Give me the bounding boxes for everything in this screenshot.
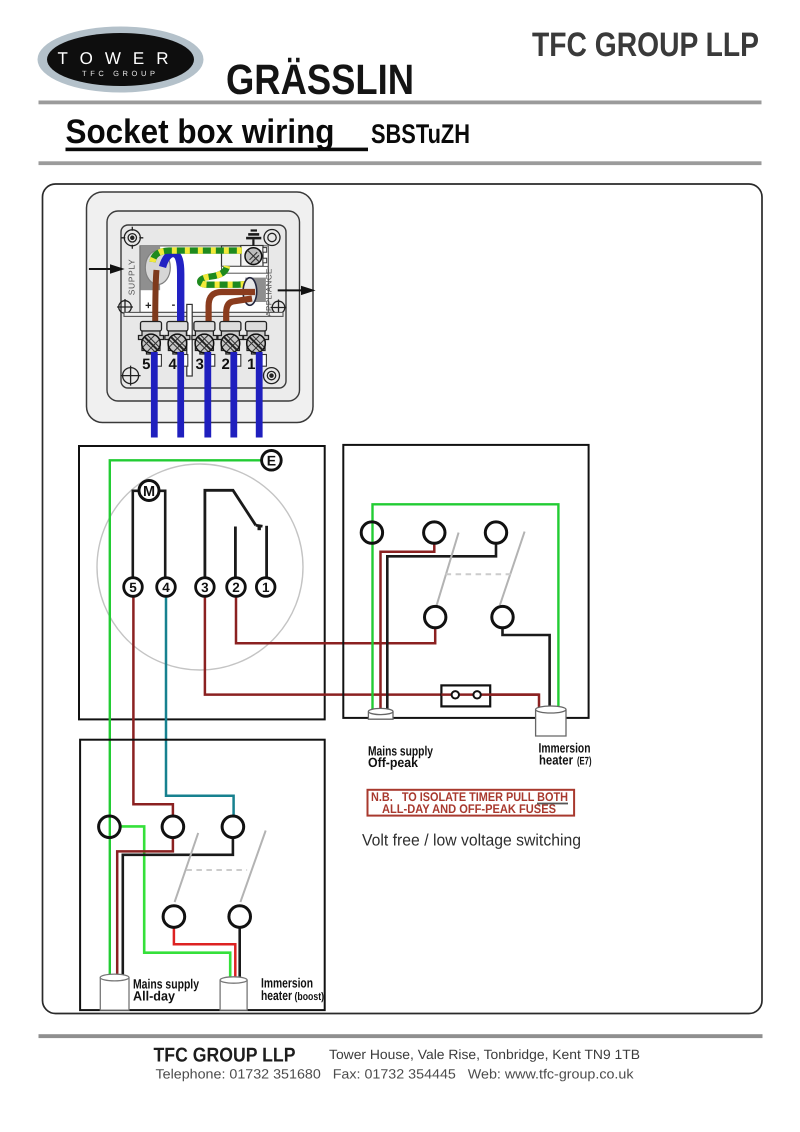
svg-text:1: 1 — [247, 356, 255, 373]
svg-text:1: 1 — [262, 580, 270, 595]
terminal panel — [140, 246, 268, 313]
svg-text:5: 5 — [129, 580, 137, 595]
svg-text:TFC GROUP: TFC GROUP — [82, 69, 159, 78]
svg-text:3: 3 — [196, 356, 204, 373]
svg-text:Telephone: 01732 351680 Fax:: Telephone: 01732 351680 Fax: 01732 35444… — [156, 1067, 634, 1082]
wire blue supply neutral — [163, 253, 181, 332]
wire bright green earth link all-day — [120, 826, 230, 979]
title rule — [39, 161, 762, 165]
wire switch common from terminal 3 — [205, 490, 256, 578]
svg-text:+: + — [145, 300, 151, 312]
svg-text:-: - — [172, 299, 176, 311]
terminal node 5 — [124, 578, 143, 597]
svg-text:4: 4 — [169, 356, 178, 373]
wire dark red neutral to mains off-peak — [381, 543, 435, 710]
timer dial circle — [97, 464, 303, 670]
screw mid-left — [117, 299, 133, 315]
socket box outer plate — [87, 192, 314, 423]
earth clamp — [222, 246, 245, 267]
switch arm right all-day — [240, 831, 265, 903]
supply arrow — [89, 264, 125, 273]
node top-left off-peak — [361, 522, 382, 543]
wire blue drop 3 — [204, 352, 211, 438]
svg-text:(boost): (boost) — [295, 991, 325, 1003]
node E — [262, 451, 282, 471]
wire blue drop 5 — [151, 352, 158, 438]
fuse block — [441, 685, 490, 706]
node top-right all-day — [222, 816, 244, 838]
svg-text:GRÄSSLIN: GRÄSSLIN — [226, 57, 414, 104]
svg-text:TFC GROUP LLP: TFC GROUP LLP — [154, 1044, 296, 1066]
terminal node 2 — [227, 578, 246, 597]
node top-right off-peak — [485, 522, 506, 543]
immersion heater E7 cylinder — [536, 706, 566, 736]
wire black live to mains all-day — [123, 838, 233, 976]
wire earth green/yellow upper — [153, 251, 243, 262]
wire black live to mains off-peak — [387, 543, 496, 710]
svg-text:Off-peak: Off-peak — [368, 755, 418, 770]
terminal 3 — [192, 322, 217, 374]
svg-text:2: 2 — [232, 580, 240, 595]
footer rule — [39, 1034, 763, 1038]
wire brown appliance B — [226, 299, 252, 333]
wire dark red terminal 5 to all-day box — [133, 596, 173, 816]
wire contact terminal 1 — [265, 526, 268, 578]
svg-text:M: M — [143, 484, 155, 500]
svg-text:4: 4 — [162, 580, 170, 595]
header rule — [39, 101, 762, 105]
node bottom-right off-peak — [492, 606, 513, 627]
switch arm left all-day — [175, 833, 199, 902]
timer box frame — [79, 446, 325, 719]
wire brown appliance A — [209, 292, 255, 332]
svg-text:E: E — [267, 453, 276, 469]
node bottom-right all-day — [229, 906, 251, 928]
svg-text:SUPPLY: SUPPLY — [127, 259, 137, 296]
wire blue drop 2 — [230, 352, 237, 438]
terminal 5 — [139, 322, 164, 374]
svg-text:SBSTuZH: SBSTuZH — [371, 119, 470, 149]
off-peak box frame — [343, 445, 588, 718]
wire blue drop 1 — [256, 352, 263, 438]
node top-left all-day — [99, 816, 121, 838]
switch contact hook — [256, 525, 263, 526]
wire green earth loop off-peak — [373, 504, 559, 714]
wire dark red terminal 2 to off-peak box — [236, 596, 435, 643]
title underline — [66, 148, 369, 152]
mains off-peak cylinder — [368, 708, 393, 719]
separator strip — [187, 304, 192, 376]
svg-text:heater: heater — [261, 988, 293, 1003]
wire motor to terminal 4 — [159, 491, 165, 578]
switch link dashed — [446, 573, 511, 575]
terminal node 3 — [196, 578, 215, 597]
svg-text:TOWER: TOWER — [58, 49, 184, 68]
svg-text:APPLIANCE: APPLIANCE — [265, 268, 274, 317]
screw bottom-left — [121, 366, 141, 386]
svg-text:heater: heater — [539, 752, 574, 767]
wire motor to terminal 5 — [133, 491, 139, 578]
screw top-right — [264, 230, 280, 246]
screw mid-right — [271, 300, 287, 316]
node bottom-mid off-peak — [425, 606, 446, 627]
appliance cable ellipse — [243, 278, 257, 306]
switch link dashed all-day — [186, 869, 247, 871]
svg-text:3: 3 — [201, 580, 209, 595]
white band under earth row — [222, 266, 269, 273]
svg-text:2: 2 — [222, 356, 230, 373]
svg-text:(E7): (E7) — [577, 755, 592, 767]
terminal node 1 — [256, 578, 275, 597]
svg-text:Tower House, Vale Rise, Tonbri: Tower House, Vale Rise, Tonbridge, Kent … — [329, 1047, 640, 1062]
svg-text:ALL-DAY AND OFF-PEAK FUSES: ALL-DAY AND OFF-PEAK FUSES — [382, 802, 556, 816]
terminal 1 — [244, 322, 269, 374]
wire brown supply live — [155, 270, 156, 332]
socket box inner plate — [121, 225, 286, 388]
appliance cable exit — [245, 278, 266, 302]
mains all-day cylinder — [100, 974, 129, 1010]
svg-text:Volt free / low voltage switch: Volt free / low voltage switching — [362, 832, 581, 850]
supply cable entry — [140, 246, 160, 290]
wire dark red neutral to mains all-day — [117, 838, 173, 976]
immersion heater boost cylinder — [220, 977, 247, 1010]
switch arm right off-peak — [500, 532, 525, 606]
appliance arrow — [278, 286, 316, 295]
switch arm left off-peak — [437, 533, 459, 606]
wire earth green/yellow loop — [200, 266, 249, 285]
earth terminal screw — [245, 248, 262, 265]
wire dark red terminal 3 to off-peak fuse — [205, 596, 539, 711]
terminal node 4 — [157, 578, 176, 597]
wire teal terminal 4 to all-day box — [166, 596, 234, 816]
fuse contact right — [473, 691, 480, 698]
svg-text:5: 5 — [142, 356, 150, 373]
node top-mid off-peak — [424, 522, 445, 543]
panel ledge — [124, 312, 283, 316]
screw bottom-right — [264, 368, 280, 384]
socket box mid plate — [107, 211, 300, 401]
wire contact terminal 2 — [234, 527, 237, 579]
warning box frame — [368, 790, 575, 816]
earth symbol — [246, 231, 261, 247]
warning BOTH underline — [537, 803, 568, 805]
wire blue drop 4 — [177, 352, 184, 438]
terminal 4 — [165, 322, 190, 374]
wire dark red through fuse — [441, 693, 539, 696]
fuse contact left — [452, 691, 459, 698]
svg-text:Socket box wiring: Socket box wiring — [66, 113, 335, 151]
svg-text:TFC GROUP LLP: TFC GROUP LLP — [532, 26, 759, 64]
screw top-left — [121, 227, 143, 249]
terminal 2 — [218, 322, 243, 374]
earth screw block — [241, 246, 263, 267]
wire red boost to heater — [174, 927, 235, 980]
supply cable ellipse — [145, 251, 170, 285]
all-day box frame — [80, 740, 325, 1010]
node top-mid all-day — [162, 816, 184, 838]
svg-text:All-day: All-day — [133, 989, 175, 1004]
wire green earth E to all-day cylinder — [110, 460, 262, 977]
logo TOWER TFC GROUP — [38, 27, 204, 93]
wire black heater live — [503, 628, 550, 708]
motor M — [139, 481, 159, 501]
wire black heater boost live — [238, 927, 241, 980]
main frame — [43, 184, 763, 1014]
node bottom-mid all-day — [163, 906, 185, 928]
